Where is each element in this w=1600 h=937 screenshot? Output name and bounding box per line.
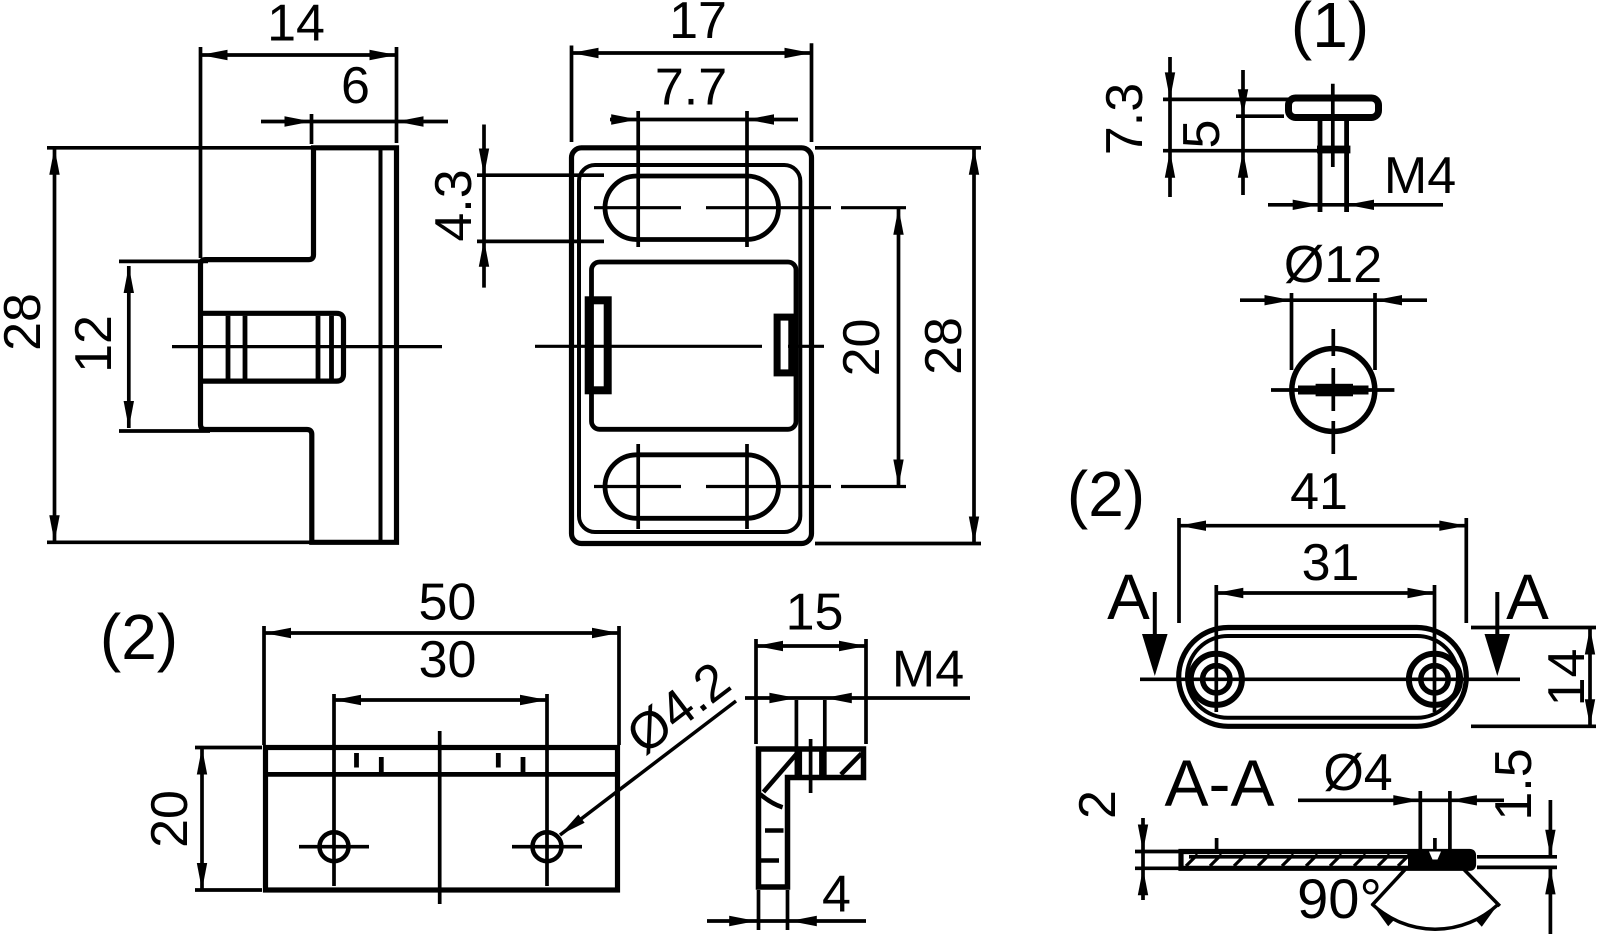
svg-text:(2): (2) [100,601,178,673]
section bar outline [1181,852,1474,869]
svg-text:(2): (2) [1067,458,1145,530]
front view inner outline [579,165,800,532]
front view top slot [605,176,779,240]
side view centerline [172,345,442,348]
svg-text:20: 20 [833,319,891,377]
oval plate right hole [1409,654,1460,705]
bracket plan bend relief ticks [357,753,524,773]
svg-text:A-A: A-A [1164,746,1274,820]
svg-text:31: 31 [1302,534,1360,592]
svg-text:5: 5 [1173,120,1231,149]
dimension 7.7 [610,59,798,125]
bracket profile outline [759,749,864,887]
knob horizontal centerline [1271,388,1394,392]
dimension 28 left [0,148,311,543]
dimension 20 [833,208,904,487]
side view nut pocket feature [201,313,344,381]
bracket plan bend line [268,772,615,777]
svg-text:Ø4: Ø4 [1323,744,1392,802]
svg-text:50: 50 [418,574,476,632]
svg-text:15: 15 [786,584,844,642]
section hole center ticks [1217,838,1435,851]
thumb screw shaft [1320,118,1347,212]
svg-text:28: 28 [0,293,52,351]
section countersink solid area [1408,852,1472,869]
dimension 1.5 [1477,748,1557,934]
knob vertical centerline [1331,329,1335,454]
label (2) left [100,601,178,673]
thumb screw head [1289,98,1379,118]
section arrow A left [1107,561,1167,676]
countersink flank lines [1372,869,1500,907]
dimension diameter 4 [1298,744,1504,851]
dimension 17 [572,0,812,142]
front view middle pocket [592,262,797,429]
section line A-A [1140,677,1520,681]
front view slot tangent ticks [638,111,747,529]
oval plate left hole [1191,654,1242,705]
front view slot centerlines [594,208,906,487]
dimension 5 [1173,70,1284,195]
svg-text:M4: M4 [892,641,964,699]
dimension 20 bracket [141,748,262,891]
thumb screw centerline [1331,84,1335,167]
section bar inner line [1189,855,1408,859]
svg-text:90°: 90° [1297,867,1382,930]
svg-text:A: A [1506,561,1549,633]
side view part outline [201,148,397,543]
dimension 41 [1179,463,1466,623]
svg-text:41: 41 [1290,463,1348,521]
bracket plan outline [266,748,618,891]
dimension M4 screw [1268,147,1456,210]
knob disc circle [1292,349,1375,432]
svg-text:A: A [1107,561,1150,633]
dimension 31 [1216,534,1434,712]
oval plate inner outline [1187,636,1458,718]
front view left notch [589,300,608,390]
svg-text:7.3: 7.3 [1096,83,1154,155]
svg-text:14: 14 [1538,649,1596,707]
label (2) right [1067,458,1145,530]
svg-text:14: 14 [267,0,325,53]
dimension diameter 12 [1240,236,1427,370]
leader diameter 4.2 [557,651,741,839]
dimension 28 right [815,148,981,544]
svg-text:7.7: 7.7 [655,59,727,117]
svg-text:(1): (1) [1291,0,1369,61]
svg-text:12: 12 [65,315,123,373]
dimension 2 [1069,790,1180,900]
svg-text:M4: M4 [1384,147,1456,205]
section hatch [1186,855,1410,867]
svg-text:6: 6 [341,57,370,115]
dimension 14 [201,0,397,258]
bracket profile hatch [760,754,861,861]
label A-A [1164,746,1274,820]
dimension M4 bracket [745,641,970,704]
svg-text:Ø12: Ø12 [1284,236,1382,294]
svg-text:28: 28 [915,317,973,375]
svg-text:2: 2 [1069,790,1127,819]
front view main centerline [535,345,824,348]
svg-text:17: 17 [669,0,727,50]
dimension 4.3 [425,125,604,288]
dimension 50 [264,574,619,746]
bracket plan vertical centerline [438,731,442,904]
oval plate outer outline [1179,628,1467,727]
front view bottom slot [605,455,779,519]
front view outer outline [572,148,812,544]
thumb screw collar [1317,146,1350,154]
dimension 15 [756,584,866,745]
dimension 12 [65,261,210,431]
bracket profile tapped hole [796,700,824,793]
bracket plan left hole [299,694,369,886]
svg-text:1.5: 1.5 [1485,748,1543,820]
label (1) [1291,0,1369,61]
bracket plan right hole [512,694,582,886]
side view plate inner line [379,150,383,540]
svg-text:30: 30 [419,631,477,689]
svg-text:4.3: 4.3 [425,169,483,241]
dimension 90 degrees [1297,867,1501,930]
dimension 7.3 [1096,57,1317,197]
dimension 4 [707,866,866,931]
dimension 6 [261,57,448,144]
dimension 14 oval [1471,628,1596,727]
svg-text:20: 20 [141,790,199,848]
dimension 30 [334,631,547,705]
knob slot [1298,384,1369,397]
section arrow A right [1485,561,1550,676]
front view right notch [777,317,792,373]
svg-text:4: 4 [822,866,851,924]
